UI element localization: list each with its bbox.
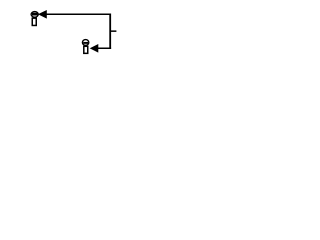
node A shank (body rectangle) [32,18,36,25]
arrowhead into node B [91,45,98,52]
arrowhead into node A [39,11,47,18]
node B head (slotted ellipse) [82,40,88,46]
node B head slot [83,42,88,44]
wire: top horizontal segment [46,13,111,15]
node A head (slotted ellipse) [31,12,38,18]
wire: right vertical segment [109,14,111,49]
node B shank (body rectangle) [84,46,88,53]
node A head slot [32,13,38,16]
wire: bottom horizontal segment [97,47,111,49]
wire stub (tick on right vertical) [110,30,116,32]
